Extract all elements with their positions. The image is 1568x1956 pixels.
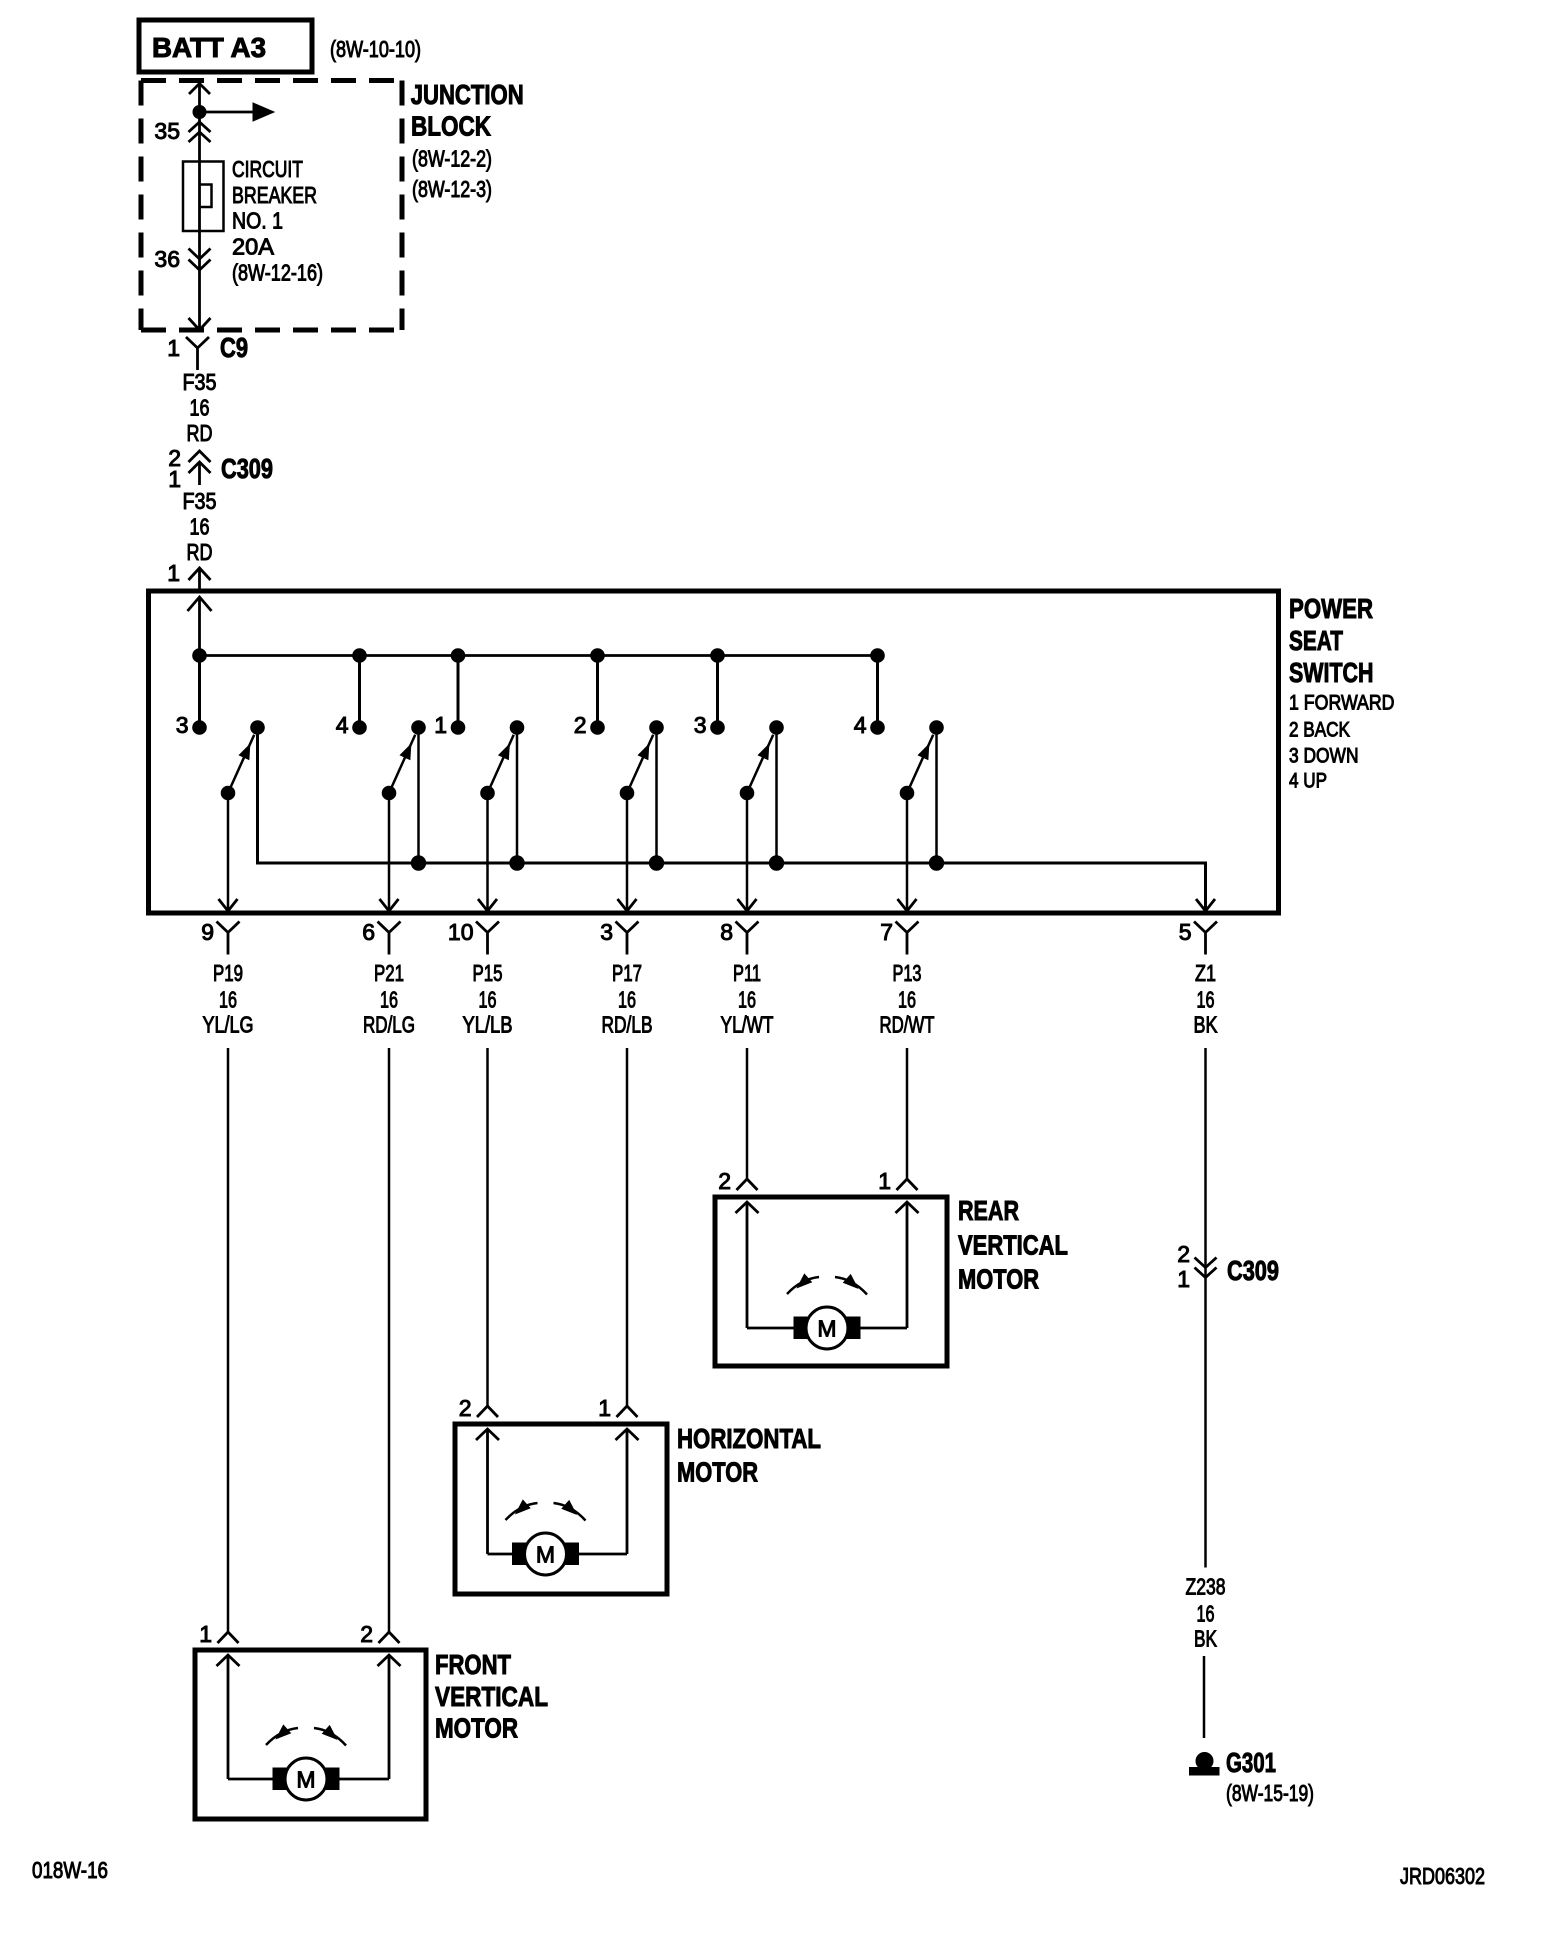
svg-text:6: 6 — [362, 919, 375, 945]
label HORIZONTAL MOTOR — [677, 1423, 821, 1488]
pin 35 of junction block — [154, 118, 210, 144]
node A: junction dot — [193, 106, 206, 119]
wire: switch internal lower bus to pin 5 — [258, 728, 1206, 911]
svg-text:RD/LG: RD/LG — [363, 1012, 415, 1038]
svg-text:20A: 20A — [232, 234, 275, 260]
wire into motor — [736, 1202, 759, 1328]
wire P19 to front vertical motor pin 1 — [227, 1048, 230, 1632]
svg-text:16: 16 — [1197, 987, 1215, 1013]
svg-text:FRONT: FRONT — [435, 1649, 511, 1680]
svg-text:16: 16 — [190, 514, 210, 540]
motor M symbol — [513, 1533, 579, 1575]
motor M symbol — [794, 1307, 860, 1349]
svg-text:1: 1 — [168, 466, 181, 492]
motor rotation arrows — [787, 1274, 867, 1294]
wire F35 16 RD (junction block to C309) — [183, 369, 217, 446]
svg-text:REAR: REAR — [958, 1195, 1019, 1226]
svg-text:P21: P21 — [374, 960, 404, 986]
label REAR VERTICAL MOTOR — [958, 1195, 1068, 1295]
svg-text:MOTOR: MOTOR — [677, 1457, 758, 1488]
svg-text:M: M — [536, 1542, 555, 1568]
svg-text:C309: C309 — [221, 453, 273, 484]
svg-text:RD: RD — [187, 539, 213, 565]
svg-text:M: M — [817, 1316, 836, 1342]
svg-text:VERTICAL: VERTICAL — [958, 1230, 1068, 1261]
svg-text:16: 16 — [618, 987, 636, 1013]
wire P11 16 YL/WT label — [721, 960, 774, 1038]
switch S5 pole (pin 8) — [738, 735, 774, 911]
svg-text:2: 2 — [360, 1621, 373, 1647]
svg-text:RD/LB: RD/LB — [602, 1012, 653, 1038]
svg-text:16: 16 — [898, 987, 916, 1013]
svg-text:RD/WT: RD/WT — [880, 1012, 935, 1038]
wire to motor brushes — [488, 1553, 628, 1556]
switch S5 fixed contact 3 — [694, 649, 725, 738]
svg-text:16: 16 — [479, 987, 497, 1013]
arrow at junction block bottom edge — [189, 318, 211, 330]
front motor connector pin 1 — [199, 1621, 238, 1647]
horizontal motor connector pin 1 — [598, 1395, 637, 1421]
wire Z238 to ground G301 — [1203, 1656, 1206, 1738]
svg-text:3 DOWN: 3 DOWN — [1289, 745, 1359, 768]
wire P21 to front vertical motor pin 2 — [388, 1048, 391, 1632]
switch connector pin 3 — [600, 919, 638, 955]
svg-text:7: 7 — [880, 919, 893, 945]
svg-text:36: 36 — [154, 246, 180, 272]
svg-text:16: 16 — [190, 395, 210, 421]
wire P21 16 RD/LG label — [363, 960, 415, 1038]
arrow to other junction block circuits — [200, 103, 275, 121]
svg-text:P19: P19 — [213, 960, 243, 986]
junction block label — [411, 79, 524, 202]
svg-text:C309: C309 — [1227, 1255, 1279, 1286]
svg-text:Z1: Z1 — [1195, 960, 1216, 986]
rear motor connector pin 2 — [718, 1168, 757, 1194]
wire P11 to rear vertical motor pin 2 — [746, 1048, 749, 1179]
svg-text:10: 10 — [448, 919, 474, 945]
svg-text:P17: P17 — [612, 960, 642, 986]
switch connector pin 8 — [720, 919, 758, 955]
svg-text:JRD06302: JRD06302 — [1400, 1863, 1485, 1889]
horizontal motor connector pin 2 — [459, 1395, 498, 1421]
svg-text:SEAT: SEAT — [1289, 625, 1343, 656]
svg-text:16: 16 — [219, 987, 237, 1013]
switch connector pin 10 — [448, 919, 499, 955]
wire into motor — [896, 1202, 919, 1328]
wire from node A through breaker to junction block bottom — [198, 112, 201, 329]
svg-text:16: 16 — [738, 987, 756, 1013]
wire P15 16 YL/LB label — [463, 960, 513, 1038]
power seat switch box SW1 — [149, 591, 1279, 913]
switch S5 moving contact — [769, 721, 783, 871]
wire: switch feed from pin 1 to internal bus — [188, 597, 212, 656]
svg-text:BK: BK — [1194, 1012, 1219, 1038]
svg-text:(8W-12-3): (8W-12-3) — [412, 176, 492, 202]
svg-text:M: M — [296, 1767, 315, 1793]
switch S4 fixed contact 2 — [574, 649, 605, 738]
motor rotation arrows — [506, 1500, 586, 1520]
svg-text:(8W-12-2): (8W-12-2) — [412, 146, 492, 172]
svg-text:1: 1 — [434, 712, 447, 738]
svg-text:HORIZONTAL: HORIZONTAL — [677, 1423, 821, 1454]
svg-text:C9: C9 — [220, 332, 248, 363]
svg-text:YL/LG: YL/LG — [203, 1012, 254, 1038]
svg-text:Z238: Z238 — [1186, 1574, 1226, 1600]
switch S6 fixed contact 4 — [854, 649, 885, 738]
svg-text:BREAKER: BREAKER — [232, 182, 317, 208]
connector C309 pins 2/1 (ground side) — [1177, 1241, 1279, 1292]
wire: switch internal top bus — [200, 654, 878, 657]
svg-text:P13: P13 — [893, 960, 922, 986]
wire F35 16 RD (C309 to switch) — [183, 488, 217, 565]
wire to motor brushes — [228, 1778, 389, 1781]
power seat switch label — [1289, 593, 1395, 793]
svg-text:16: 16 — [380, 987, 398, 1013]
svg-text:POWER: POWER — [1289, 593, 1373, 624]
switch S1 fixed contact 3 — [176, 649, 207, 738]
svg-text:2: 2 — [574, 712, 587, 738]
svg-text:F35: F35 — [183, 369, 217, 395]
svg-text:SWITCH: SWITCH — [1289, 657, 1374, 688]
svg-text:1: 1 — [1177, 1266, 1190, 1292]
svg-text:(8W-15-19): (8W-15-19) — [1226, 1780, 1314, 1806]
svg-text:NO. 1: NO. 1 — [232, 208, 283, 234]
ground G301 — [1190, 1747, 1277, 1778]
switch S3 moving contact — [510, 721, 524, 871]
svg-text:P11: P11 — [733, 960, 761, 986]
switch S1 moving contact — [251, 721, 265, 735]
svg-text:16: 16 — [1197, 1601, 1215, 1627]
svg-text:1: 1 — [199, 1621, 212, 1647]
front motor connector pin 2 — [360, 1621, 399, 1647]
pin 36 of junction block — [154, 246, 210, 272]
circuit breaker label — [232, 156, 323, 286]
rear motor connector pin 1 — [878, 1168, 917, 1194]
svg-text:BLOCK: BLOCK — [411, 111, 491, 142]
wire Z238 16 BK label — [1186, 1574, 1226, 1652]
label FRONT VERTICAL MOTOR — [435, 1649, 548, 1744]
svg-text:G301: G301 — [1226, 1747, 1276, 1778]
switch S6 pole (pin 7) — [898, 735, 934, 911]
svg-text:4: 4 — [854, 712, 867, 738]
wire P17 16 RD/LB label — [602, 960, 653, 1038]
switch S3 fixed contact 1 — [434, 649, 465, 738]
switch S2 moving contact — [411, 721, 425, 871]
switch S4 moving contact — [649, 721, 663, 871]
svg-text:RD: RD — [187, 420, 213, 446]
svg-text:MOTOR: MOTOR — [435, 1713, 518, 1744]
svg-text:2 BACK: 2 BACK — [1289, 719, 1350, 742]
svg-text:2: 2 — [459, 1395, 472, 1421]
motor box: HORIZONTAL MOTOR — [455, 1424, 667, 1594]
svg-text:35: 35 — [154, 118, 180, 144]
power seat switch pin 1 — [167, 560, 210, 591]
switch S2 fixed contact 4 — [336, 649, 367, 738]
svg-text:P15: P15 — [473, 960, 503, 986]
svg-text:1: 1 — [598, 1395, 611, 1421]
wire from BATT A3 down to junction node — [189, 84, 210, 113]
wire Z1 from switch pin 5 to C309 — [1204, 1048, 1207, 1568]
switch S3 pole (pin 10) — [478, 735, 514, 911]
power source box BATT A3 — [139, 20, 312, 72]
switch pin 5 arrow at box edge — [1196, 899, 1215, 911]
motor box: FRONT VERTICAL MOTOR — [195, 1650, 426, 1819]
svg-text:8: 8 — [720, 919, 733, 945]
svg-text:(8W-10-10): (8W-10-10) — [330, 36, 421, 62]
switch S6 moving contact — [929, 721, 943, 871]
svg-text:1: 1 — [878, 1168, 891, 1194]
svg-text:MOTOR: MOTOR — [958, 1264, 1039, 1295]
svg-text:2: 2 — [718, 1168, 731, 1194]
switch connector pin 7 — [880, 919, 918, 955]
svg-text:3: 3 — [176, 712, 189, 738]
wire P15 to horizontal motor pin 2 — [486, 1048, 489, 1406]
svg-text:VERTICAL: VERTICAL — [435, 1681, 548, 1712]
junction block dashed box — [141, 81, 402, 331]
svg-text:1 FORWARD: 1 FORWARD — [1289, 692, 1395, 715]
switch connector pin 6 — [362, 919, 400, 955]
switch S4 pole (pin 3) — [618, 735, 654, 911]
connector C9 pin 1 — [167, 332, 248, 370]
motor M symbol — [273, 1758, 339, 1800]
switch connector pin 9 — [201, 919, 239, 955]
wire P17 to horizontal motor pin 1 — [626, 1048, 629, 1406]
wire P13 to rear vertical motor pin 1 — [906, 1048, 909, 1179]
svg-text:BK: BK — [1194, 1626, 1217, 1652]
switch connector pin 5 — [1179, 919, 1217, 955]
wire into motor — [616, 1429, 639, 1554]
svg-text:4 UP: 4 UP — [1289, 770, 1327, 793]
wire P13 16 RD/WT label — [880, 960, 935, 1038]
svg-text:3: 3 — [600, 919, 613, 945]
motor box: REAR VERTICAL MOTOR — [715, 1197, 947, 1366]
svg-text:018W-16: 018W-16 — [32, 1857, 108, 1883]
svg-text:YL/LB: YL/LB — [463, 1012, 513, 1038]
switch S1 pole (pin 9) — [219, 735, 255, 911]
svg-text:CIRCUIT: CIRCUIT — [232, 156, 303, 182]
svg-text:1: 1 — [167, 560, 180, 586]
wire into motor — [476, 1429, 499, 1554]
wire into motor — [378, 1655, 401, 1779]
motor rotation arrows — [266, 1725, 346, 1745]
wire Z1 16 BK label — [1194, 960, 1219, 1038]
wire into motor — [217, 1655, 240, 1779]
svg-text:5: 5 — [1179, 919, 1192, 945]
wire P19 16 YL/LG label — [203, 960, 254, 1038]
svg-text:4: 4 — [336, 712, 349, 738]
svg-text:9: 9 — [201, 919, 214, 945]
switch S2 pole (pin 6) — [380, 735, 416, 911]
connector C309 pins 2/1 — [168, 445, 273, 492]
svg-text:3: 3 — [694, 712, 707, 738]
svg-text:(8W-12-16): (8W-12-16) — [232, 260, 323, 286]
svg-text:2: 2 — [1177, 1241, 1190, 1267]
svg-text:1: 1 — [167, 335, 180, 361]
svg-text:YL/WT: YL/WT — [721, 1012, 774, 1038]
svg-text:F35: F35 — [183, 488, 217, 514]
svg-text:JUNCTION: JUNCTION — [411, 79, 524, 110]
wire to motor brushes — [747, 1327, 907, 1330]
circuit breaker CB1 (20A) — [183, 162, 224, 232]
svg-text:BATT A3: BATT A3 — [152, 32, 266, 63]
